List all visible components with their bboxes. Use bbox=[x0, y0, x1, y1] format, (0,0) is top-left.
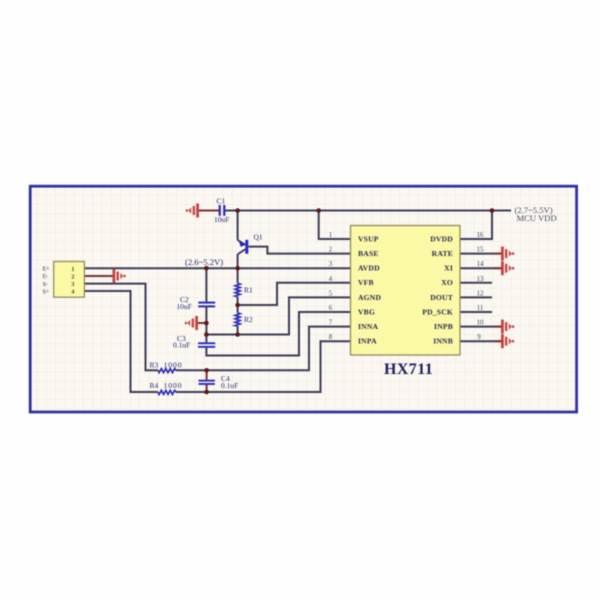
svg-text:E-: E- bbox=[43, 274, 49, 280]
svg-text:VBG: VBG bbox=[358, 307, 375, 316]
svg-text:PD_SCK: PD_SCK bbox=[422, 307, 453, 316]
svg-text:XI: XI bbox=[444, 264, 453, 273]
svg-text:9: 9 bbox=[477, 334, 481, 341]
svg-text:11: 11 bbox=[477, 305, 484, 312]
svg-text:INPB: INPB bbox=[434, 322, 453, 331]
svg-text:XO: XO bbox=[441, 278, 453, 287]
svg-text:14: 14 bbox=[477, 261, 484, 268]
svg-text:INNB: INNB bbox=[433, 337, 453, 346]
svg-text:AGND: AGND bbox=[358, 293, 381, 302]
svg-text:R4: R4 bbox=[150, 381, 159, 390]
svg-text:(2.6~5.2V): (2.6~5.2V) bbox=[185, 257, 223, 267]
svg-text:0.1uF: 0.1uF bbox=[221, 381, 238, 390]
svg-text:10uF: 10uF bbox=[214, 215, 229, 224]
svg-text:1000: 1000 bbox=[164, 381, 183, 390]
svg-text:3: 3 bbox=[329, 261, 333, 268]
svg-text:E+: E+ bbox=[43, 267, 51, 273]
svg-text:C1: C1 bbox=[217, 197, 226, 206]
svg-text:Q1: Q1 bbox=[254, 233, 263, 242]
svg-text:HX711: HX711 bbox=[384, 361, 433, 378]
svg-text:16: 16 bbox=[477, 232, 484, 239]
svg-text:6: 6 bbox=[329, 305, 333, 312]
svg-text:DVDD: DVDD bbox=[430, 234, 453, 243]
svg-text:DOUT: DOUT bbox=[430, 293, 453, 302]
svg-text:1: 1 bbox=[329, 232, 332, 239]
svg-text:2: 2 bbox=[329, 247, 333, 254]
svg-text:AVDD: AVDD bbox=[358, 264, 380, 273]
svg-text:VFB: VFB bbox=[358, 278, 374, 287]
svg-text:13: 13 bbox=[477, 276, 484, 283]
svg-text:10: 10 bbox=[477, 320, 484, 327]
svg-text:R2: R2 bbox=[244, 315, 253, 324]
svg-text:7: 7 bbox=[329, 320, 333, 327]
svg-text:RATE: RATE bbox=[432, 249, 453, 258]
svg-text:5: 5 bbox=[329, 290, 333, 297]
svg-text:BASE: BASE bbox=[358, 249, 379, 258]
svg-text:1000: 1000 bbox=[164, 361, 183, 370]
svg-text:15: 15 bbox=[477, 247, 484, 254]
svg-text:12: 12 bbox=[477, 290, 484, 297]
svg-text:S+: S+ bbox=[43, 289, 50, 295]
svg-text:10uF: 10uF bbox=[177, 302, 192, 311]
svg-text:MCU VDD: MCU VDD bbox=[517, 213, 557, 223]
svg-text:INPA: INPA bbox=[358, 337, 377, 346]
svg-text:4: 4 bbox=[329, 276, 333, 283]
svg-text:VSUP: VSUP bbox=[358, 234, 379, 243]
svg-text:INNA: INNA bbox=[358, 322, 379, 331]
svg-text:1: 1 bbox=[71, 266, 74, 273]
svg-text:8: 8 bbox=[329, 334, 333, 341]
svg-text:R3: R3 bbox=[150, 361, 159, 370]
svg-text:S-: S- bbox=[43, 282, 48, 288]
svg-text:R1: R1 bbox=[244, 286, 253, 295]
svg-text:0.1uF: 0.1uF bbox=[173, 341, 190, 350]
